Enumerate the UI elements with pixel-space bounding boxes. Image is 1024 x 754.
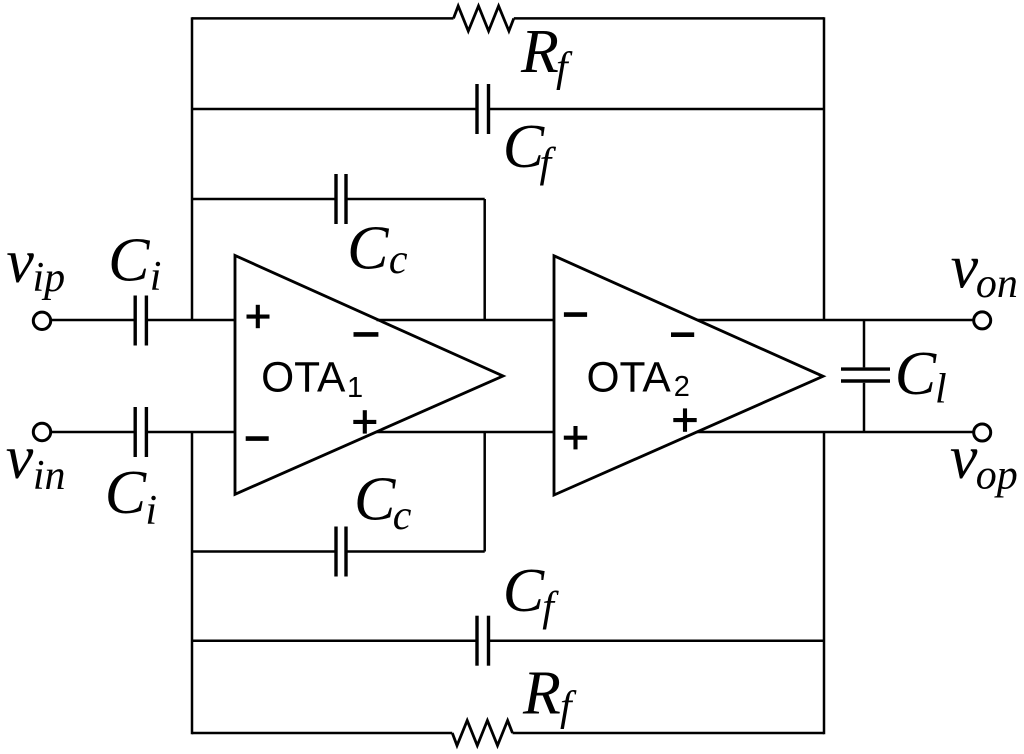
wire top Cf line left segment (192, 108, 477, 111)
svg-text:f: f (556, 45, 573, 91)
capacitor Cc top (336, 174, 346, 224)
svg-text:1: 1 (347, 372, 363, 404)
OTA2 minus input marker (564, 312, 587, 317)
capacitor Cl stub upper (863, 320, 866, 367)
svg-text:C: C (354, 466, 396, 534)
wire OTA1 top output to OTA2 (377, 319, 555, 322)
wire OTA2 top output to von (697, 319, 974, 322)
wire left rail upper (191, 17, 194, 320)
svg-text:R: R (522, 660, 561, 728)
OTA2 label (587, 354, 690, 403)
wire Ci to OTA1 noninverting input (146, 319, 235, 322)
svg-text:c: c (389, 237, 408, 283)
svg-text:c: c (393, 493, 412, 539)
svg-text:OTA: OTA (587, 354, 672, 401)
wire bottom Cc vertical drop (483, 432, 486, 552)
OTA1 label (261, 354, 363, 404)
capacitor Cl plates (841, 369, 890, 381)
svg-text:f: f (560, 684, 577, 730)
svg-text:f: f (540, 141, 557, 187)
von label (951, 233, 1018, 307)
Ci label bottom (105, 459, 157, 534)
Ci label top (108, 226, 161, 300)
wire right rail lower (823, 432, 826, 734)
wire top feedback line right segment (514, 17, 824, 20)
svg-text:f: f (542, 585, 559, 631)
svg-text:v: v (951, 233, 979, 301)
svg-text:i: i (145, 488, 157, 534)
capacitor Ci bottom (135, 407, 146, 457)
wire top feedback line left segment (192, 17, 454, 20)
Rf label top (520, 18, 573, 91)
wire bottom feedback line left segment (192, 732, 452, 735)
Cf label top (503, 113, 557, 187)
capacitor Cl stub lower (863, 383, 866, 432)
Cc label bottom (354, 466, 412, 539)
OTA2 plus output marker (673, 408, 696, 431)
op-amp OTA2 (554, 256, 823, 495)
capacitor Cf bottom (477, 616, 489, 666)
svg-text:C: C (503, 557, 545, 625)
svg-text:i: i (150, 254, 162, 300)
input terminal vin (33, 423, 50, 440)
wire vin to Ci (51, 431, 135, 434)
wire bottom Cc line right segment (346, 550, 485, 553)
wire left rail lower (191, 432, 194, 734)
capacitor Cc bottom (336, 527, 346, 577)
op-amp OTA1 (235, 256, 503, 495)
wire OTA2 bottom output to vop (697, 431, 974, 434)
resistor Rf bottom (452, 721, 512, 746)
svg-text:in: in (33, 453, 66, 499)
wire right rail upper (823, 17, 826, 320)
OTA1 minus output marker (354, 332, 379, 337)
wire bottom Cf line left segment (192, 639, 477, 642)
Cf label bottom (503, 557, 560, 631)
svg-text:R: R (520, 18, 559, 86)
OTA2 minus output marker (671, 332, 694, 337)
OTA2 plus input marker (564, 426, 587, 449)
svg-text:l: l (935, 366, 947, 412)
input terminal vip (33, 312, 50, 329)
svg-text:C: C (503, 113, 545, 181)
svg-text:v: v (6, 228, 34, 296)
svg-text:on: on (976, 261, 1018, 307)
svg-text:OTA: OTA (261, 354, 346, 401)
vop label (950, 424, 1018, 499)
wire OTA1 bottom output to OTA2 (376, 431, 554, 434)
wire bottom Cc line left segment (192, 550, 336, 553)
svg-text:C: C (895, 340, 937, 408)
OTA1 plus output marker (353, 410, 376, 433)
svg-text:ip: ip (33, 255, 66, 301)
capacitor Cf top (477, 84, 489, 134)
output terminal vop (974, 424, 991, 441)
svg-text:v: v (6, 424, 34, 492)
svg-text:v: v (950, 424, 978, 492)
capacitor Ci top (135, 296, 146, 346)
wire Ci to OTA1 inverting input (146, 431, 235, 434)
resistor Rf top (454, 6, 514, 31)
svg-text:C: C (105, 459, 147, 527)
wire top Cc vertical drop (483, 199, 486, 320)
wire top Cc line right segment (346, 198, 485, 201)
wire bottom Cf line right segment (489, 639, 825, 642)
Cc label top (347, 214, 408, 283)
wire top Cc line left segment (192, 198, 336, 201)
wire bottom feedback line right segment (513, 732, 825, 735)
OTA1 minus input marker (246, 436, 269, 441)
svg-text:2: 2 (674, 371, 690, 403)
wire vip to Ci (51, 319, 135, 322)
output terminal von (974, 312, 991, 329)
vip label (6, 228, 65, 301)
Rf label bottom (522, 660, 577, 730)
vin label (6, 424, 66, 499)
Cl label (895, 340, 947, 413)
OTA1 plus input marker (247, 305, 270, 328)
wire top Cf line right segment (489, 108, 825, 111)
svg-text:op: op (976, 453, 1018, 499)
svg-text:C: C (347, 214, 389, 282)
svg-text:C: C (108, 226, 150, 294)
